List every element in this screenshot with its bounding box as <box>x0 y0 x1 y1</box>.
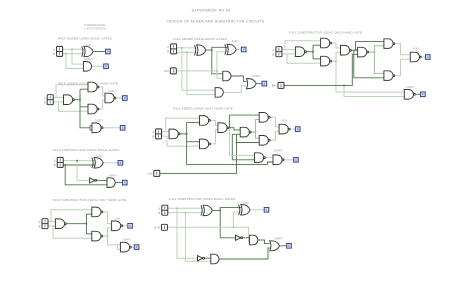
junction XOR1 out (FS basic) <box>219 210 221 212</box>
wire A to NAND1 (FA nand) <box>162 131 169 133</box>
NAND6 upper (FA nand) <box>259 113 270 123</box>
svg-text:A: A <box>54 159 56 163</box>
wire A branch to NAND2 (FS nand) <box>285 41 321 50</box>
wire NAND7 out to SUM gate (FA nand) <box>271 131 280 140</box>
wire AND out to CARRY probe (HA basic) <box>91 65 103 67</box>
SUM probe (FS basic) <box>264 208 269 213</box>
junction CIN (FA basic) <box>216 70 218 72</box>
wire CIN to AND1 (FA basic) <box>217 71 223 78</box>
wire NAND5 out loop up (FS nand) <box>369 46 384 52</box>
wire CARRY out to probe (FA nand) <box>284 159 293 161</box>
wire OR out to probe (FS basic) <box>280 245 287 247</box>
wire B branch to NAND3 (HS nand) <box>53 226 92 238</box>
AND gate (HS basic) <box>107 173 117 187</box>
svg-text:B: B <box>152 135 154 139</box>
svg-text:BIN: BIN <box>272 84 277 88</box>
XOR2 SUM gate (FS basic) <box>239 201 250 215</box>
svg-text:FULL SUBSTRACTOR USING BASIC G: FULL SUBSTRACTOR USING BASIC GATES <box>169 197 236 201</box>
SUM probe (HA basic) <box>106 49 111 54</box>
wire CIN distribution (FA basic) <box>176 52 227 71</box>
input pin CIN (FA nand) <box>147 170 159 176</box>
input pins A,B (HA basic) <box>53 46 62 56</box>
SUM probe (HA nand) <box>123 96 128 101</box>
junction NAND3 out (HS nand) <box>107 235 109 237</box>
wire BIN to carry in2 (FS nand) <box>344 85 404 96</box>
svg-text:FULL SUBSTRACTOR USING ONLY NA: FULL SUBSTRACTOR USING ONLY NAND GATE <box>289 31 362 35</box>
wire B branch to AND (HS basic) <box>65 165 107 185</box>
wire CARRY input split (HA nand) <box>90 126 92 130</box>
NAND7 lower (FS nand) <box>384 71 395 81</box>
svg-text:SUM: SUM <box>108 89 114 93</box>
svg-text:CARRY: CARRY <box>274 149 284 153</box>
junction NAND3 out (FS nand) <box>335 60 337 62</box>
NAND2 upper (HA nand) <box>88 82 99 92</box>
CARRY probe (FA nand) <box>294 158 299 163</box>
NAND7 lower (FA nand) <box>259 136 270 146</box>
wire X down to NAND7 (FS nand) <box>354 50 384 78</box>
wire A to XOR1 (FS basic) <box>168 207 204 209</box>
wire node to NAND2 stub (HS nand) <box>86 213 91 215</box>
wire A to NAND1 (HS nand) <box>48 221 55 223</box>
wire AND2 out to OR (FS basic) <box>219 248 270 259</box>
NOT2 gate (FS basic) <box>198 256 205 261</box>
svg-text:B: B <box>44 100 46 104</box>
wire CARRY in1 stub (HA nand) <box>90 125 92 127</box>
wire NAND2 stub (FS nand) <box>313 44 321 46</box>
junction NAND1 out (FA nand) <box>186 133 188 135</box>
wire XOR2 out to probe (FS basic) <box>250 209 264 211</box>
svg-text:A: A <box>44 96 46 100</box>
svg-text:CIRCUIT DESIGN: CIRCUIT DESIGN <box>84 27 106 31</box>
SUM probe (HS nand) <box>128 224 133 229</box>
wire NAND3 out to SUM (HS nand) <box>103 228 112 236</box>
svg-text:CIN: CIN <box>164 69 169 73</box>
wire B to XOR (HA basic) <box>63 53 85 55</box>
NAND1 first stage (HS nand) <box>55 219 66 229</box>
wire NAND6 out to SUM (FS nand) <box>395 44 410 55</box>
NAND5 second stage (FS nand) <box>358 47 369 57</box>
NAND2 upper (FA nand) <box>200 116 211 126</box>
junction BIN (FS basic) <box>233 227 235 229</box>
junction X net (FS nand) <box>355 49 357 51</box>
NAND4 SUM (HA nand) <box>105 89 116 103</box>
wire B to XOR1 (FS basic) <box>168 212 204 214</box>
CARRY probe (FS basic) <box>287 244 292 249</box>
wire B to XOR (HS basic) <box>63 164 95 166</box>
svg-text:FULL ADDER USING BASIC GATES: FULL ADDER USING BASIC GATES <box>173 37 226 41</box>
wire NAND4 out X node (FS nand) <box>352 49 356 51</box>
svg-text:SUM: SUM <box>232 39 238 43</box>
wire carry in1 long (FA nand) <box>230 128 255 156</box>
junction X net (FA nand) <box>229 127 231 129</box>
wire AND out to probe (HS basic) <box>115 182 123 184</box>
svg-text:CARRY: CARRY <box>406 85 416 89</box>
junction BIN net (FS nand) <box>343 85 345 87</box>
AND1 gate (FS basic) <box>250 235 258 245</box>
wire node NAND3 stub (FA nand) <box>187 141 200 143</box>
svg-text:A: A <box>167 45 169 49</box>
wire NAND9 out to NAND10 (FA nand) <box>266 157 273 159</box>
OR CARRY gate (FS basic) <box>270 236 284 251</box>
SUM probe (HS basic) <box>118 161 123 166</box>
AND2 gate (FA basic) <box>215 88 223 98</box>
wire XOR out to SUM probe (HA basic) <box>94 51 106 53</box>
wire CIN to NAND7 (FA nand) <box>237 142 260 144</box>
wire CIN long (FA nand) <box>160 134 240 173</box>
svg-text:A: A <box>53 48 55 52</box>
wire XOR1 out node (FS basic) <box>213 208 242 211</box>
svg-text:HALF ADDER USING BASIC GATES: HALF ADDER USING BASIC GATES <box>58 37 112 41</box>
input pins A,B (FS basic) <box>158 205 167 215</box>
OR CARRY gate (FA basic) <box>246 74 261 89</box>
svg-text:EXPERIMENT NO-04: EXPERIMENT NO-04 <box>192 9 231 13</box>
NAND4 xor out (FS nand) <box>341 45 352 55</box>
input pins A,B (FA nand) <box>152 129 161 139</box>
wire NAND2 out to SUM gate (HA nand) <box>99 87 105 96</box>
svg-text:COMBINATIONAL: COMBINATIONAL <box>84 23 106 27</box>
svg-text:B: B <box>272 52 274 56</box>
NAND3 lower (FA nand) <box>200 139 211 149</box>
wire NAND6 out to SUM gate (FA nand) <box>271 117 280 127</box>
wire NAND4 out X net (FA nand) <box>229 115 259 128</box>
wire X net to NAND5 (FA nand) <box>230 128 241 130</box>
wire XOR2 out to SUM probe (FA basic) <box>237 49 242 51</box>
wire A to XOR1 (FA basic) <box>177 47 198 49</box>
CARRY probe (FS nand) <box>421 92 426 97</box>
wire XOR1 out to AND1 (FA basic) <box>212 50 223 74</box>
wire node vertical to CARRY (HA nand) <box>80 89 90 128</box>
wire A branch to AND2 (FA basic) <box>182 48 215 90</box>
XOR gate (HA basic) <box>82 43 93 57</box>
junction B branch (HA basic) <box>65 53 67 55</box>
wire NAND3 out to NAND4 (FA nand) <box>203 130 218 144</box>
svg-text:A: A <box>272 48 274 52</box>
svg-text:CARRY: CARRY <box>108 173 118 177</box>
wire B to NAND1 (FS nand) <box>282 53 296 55</box>
AND gate (HA basic) <box>83 57 93 71</box>
XOR gate (HS basic) <box>92 154 103 168</box>
junction NAND1 out (HA nand) <box>79 99 81 101</box>
CARRY probe (HS nand) <box>134 245 139 250</box>
junction A branch (FS basic) <box>176 207 178 209</box>
input pin BIN (FS basic) <box>154 224 167 230</box>
wire NAND3 to carry long (FS nand) <box>336 61 404 92</box>
NAND5 CARRY (HA nand) <box>92 118 104 132</box>
wire OR out to CARRY probe (FA basic) <box>257 83 262 85</box>
svg-text:A: A <box>39 220 41 224</box>
wire A branch to NOT2 (FS basic) <box>177 208 198 258</box>
svg-text:CARRY: CARRY <box>252 74 262 78</box>
wire NAND5 out loop down (FS nand) <box>374 52 384 73</box>
input pins A,B (HA nand) <box>44 95 53 105</box>
wire B branch to AND2 (FA basic) <box>187 52 215 94</box>
svg-text:HALF SUBSTRACTOR USING BASIC G: HALF SUBSTRACTOR USING BASIC GATES <box>52 148 119 152</box>
svg-text:B: B <box>39 224 41 228</box>
wire node NAND2 stub (FA nand) <box>187 122 200 124</box>
svg-text:FULL ADDER USING ONLY NAND GAT: FULL ADDER USING ONLY NAND GATE <box>173 107 233 111</box>
NOT gate (HS basic) <box>90 178 97 183</box>
svg-text:B: B <box>53 52 55 56</box>
svg-text:SUM: SUM <box>413 47 419 51</box>
wire BIN long (FS nand) <box>284 54 358 85</box>
wire NAND5 out loop down (FA nand) <box>256 132 260 138</box>
wire SUM out to probe (HS nand) <box>123 225 128 227</box>
wire NAND1 out node (FS nand) <box>307 51 313 53</box>
wire AND1 out to OR (FA basic) <box>231 76 247 81</box>
wire A branch to NAND2 (HS nand) <box>51 210 92 222</box>
svg-text:SUM: SUM <box>114 217 120 221</box>
wire A branch to NAND2 (FA nand) <box>166 118 200 132</box>
wire node to NAND2 in2 (FA nand) <box>186 123 188 142</box>
wire XOR out to probe (HS basic) <box>104 162 118 164</box>
wire CARRY out to probe (HA nand) <box>103 127 120 129</box>
wire NAND7 out to SUM (FS nand) <box>395 59 410 75</box>
wire X up to NAND6 (FS nand) <box>355 41 357 50</box>
wire NAND3 out to SUM gate (HA nand) <box>99 100 105 109</box>
junction A branch (FA basic) <box>181 47 183 49</box>
wire NAND3 out node (FS nand) <box>332 52 341 61</box>
wire B branch to NAND3 (HA nand) <box>59 102 89 111</box>
junction A to NOT (HS basic) <box>76 160 78 162</box>
wire B branch to AND2 (FS basic) <box>185 213 210 262</box>
input pins A,B (HS nand) <box>39 219 48 229</box>
junction B branch (FS basic) <box>185 212 187 214</box>
SUM probe (FA nand) <box>295 127 300 132</box>
CARRY probe (HS basic) <box>123 180 128 185</box>
svg-text:A: A <box>158 206 160 210</box>
wire NOT out to AND (HS basic) <box>96 179 107 181</box>
wire NAND1 out node (HS nand) <box>67 223 87 225</box>
junction B branch (FA basic) <box>186 52 188 54</box>
input pins A,B (FA basic) <box>167 44 176 54</box>
wire B branch to NAND3 (FA nand) <box>167 136 200 146</box>
svg-text:B: B <box>158 211 160 215</box>
wire NAND1 out node (HA nand) <box>75 99 80 101</box>
junction NAND5 out (FA nand) <box>255 131 257 133</box>
svg-text:CARRY: CARRY <box>94 118 104 122</box>
wire B to NAND1 (FA nand) <box>162 135 169 137</box>
SUM probe (FA basic) <box>241 47 246 52</box>
wire A to XOR (HS basic) <box>63 160 95 162</box>
wire A branch to NOT (HS basic) <box>77 161 90 181</box>
NOT1 gate (FS basic) <box>236 235 243 240</box>
CARRY probe (HA basic) <box>104 64 109 69</box>
NAND9 CARRY (FS nand) <box>404 85 415 99</box>
wire CARRY in1 stub (HS nand) <box>118 244 121 246</box>
wire NAND1 to carry chain (FA nand) <box>187 142 273 165</box>
wire NAND5 out loop up (FA nand) <box>252 120 260 133</box>
NAND9 carry stage (FA nand) <box>255 153 266 163</box>
wire A to XOR (HA basic) <box>63 48 85 50</box>
junction A branch (HA basic) <box>71 49 73 51</box>
XOR1 gate (FA basic) <box>195 45 206 55</box>
NAND10 CARRY (FA nand) <box>273 149 284 165</box>
wire node to NAND3 stub (HS nand) <box>86 233 91 235</box>
wire CIN branch to NAND9 in2 (FA nand) <box>232 134 254 160</box>
NAND5 CARRY (HS nand) <box>120 238 131 252</box>
wire A to NAND1 (FS nand) <box>282 49 296 51</box>
wire A to NAND1 (HA nand) <box>53 97 63 99</box>
junction B to AND (HS basic) <box>64 164 66 166</box>
AND2 gate (FS basic) <box>211 254 219 264</box>
NAND1 first stage (FS nand) <box>295 47 306 57</box>
svg-text:CIN: CIN <box>147 172 152 176</box>
NAND1 first stage (HA nand) <box>64 95 75 105</box>
svg-text:CARRY: CARRY <box>274 236 284 240</box>
wire AND2 out to OR (FA basic) <box>223 86 246 93</box>
junction CIN net (FA nand) <box>236 142 238 144</box>
NAND4 SUM (HS nand) <box>112 217 123 231</box>
svg-text:HALF SUBSTRACTOR USING ONLY NA: HALF SUBSTRACTOR USING ONLY NAND GATE <box>53 198 127 202</box>
wire A branch to AND (HA basic) <box>72 49 83 64</box>
NAND2 upper (FS nand) <box>321 38 332 48</box>
CARRY probe (HA nand) <box>120 126 125 131</box>
wire SUM out to probe (FA nand) <box>290 128 295 130</box>
input pin CIN (FA basic) <box>164 68 176 74</box>
XOR1 gate (FS basic) <box>201 205 212 215</box>
wire CARRY out to probe (FS nand) <box>416 93 421 95</box>
wire XOR1 out node (FA basic) <box>206 47 227 50</box>
svg-text:A: A <box>152 130 154 134</box>
wire NOT2 out to AND2 (FS basic) <box>204 257 210 259</box>
wire NAND3 out to CARRY (HS nand) <box>108 236 121 249</box>
NAND6 upper (FS nand) <box>384 39 395 49</box>
wire node to NAND2 in2 (HS nand) <box>85 214 87 234</box>
junction NAND1 out (HS nand) <box>86 223 88 225</box>
NAND4 xor out (FA nand) <box>218 123 229 133</box>
wire node to NAND2 in2 (HA nand) <box>80 88 88 90</box>
XOR2 SUM gate (FA basic) <box>225 39 238 55</box>
NAND8 SUM (FS nand) <box>410 47 421 62</box>
junction NAND5 out (FS nand) <box>374 51 376 53</box>
CARRY probe (FA basic) <box>262 81 267 86</box>
AND1 gate (FA basic) <box>223 71 231 81</box>
svg-text:CARRY: CARRY <box>122 238 132 242</box>
wire B to NAND1 (HA nand) <box>53 101 63 103</box>
wire CARRY out to probe (HS nand) <box>132 246 135 248</box>
wire node to NAND3 in1 (HA nand) <box>80 106 88 108</box>
wire node to NAND2 in2 (FS nand) <box>312 45 314 59</box>
svg-text:B: B <box>54 163 56 167</box>
NAND2 upper (HS nand) <box>92 207 103 217</box>
input pins A,B (HS basic) <box>54 157 63 167</box>
wire BIN to AND1 (FS basic) <box>233 227 249 242</box>
wire XOR1 to NOT1 (FS basic) <box>220 210 235 237</box>
wire NAND2 out to NAND4 (FA nand) <box>203 120 218 125</box>
wire NAND1 out node (FA nand) <box>180 133 186 135</box>
NAND1 first stage (FA nand) <box>169 129 180 139</box>
wire B branch to NAND3 (FS nand) <box>287 54 321 63</box>
input pins A,B (FS nand) <box>272 47 281 57</box>
wire SUM out to probe (FS nand) <box>422 56 426 58</box>
NAND8 SUM (FA nand) <box>279 119 290 134</box>
NAND3 lower (FS nand) <box>321 56 332 66</box>
wire B to NAND1 (HS nand) <box>48 225 55 227</box>
wire X to NAND5 (FS nand) <box>356 49 358 51</box>
wire B branch to AND (HA basic) <box>66 54 83 69</box>
wire NAND3 stub (FS nand) <box>313 58 321 60</box>
wire A branch to NAND2 (HA nand) <box>56 85 88 98</box>
input pin BIN (FS nand) <box>272 82 284 88</box>
svg-text:SUM: SUM <box>282 119 288 123</box>
svg-text:CARRY: CARRY <box>84 57 94 61</box>
wire NOT1 out to AND1 (FS basic) <box>242 237 250 239</box>
junction XOR1 out (FA basic) <box>211 49 213 51</box>
SUM probe (FS nand) <box>426 55 431 60</box>
svg-text:B: B <box>167 50 169 54</box>
svg-text:B IN: B IN <box>154 226 159 230</box>
svg-text:DESIGN OF ADDER AND SUBSTRACTO: DESIGN OF ADDER AND SUBSTRACTOR CIRCUITS <box>167 20 265 24</box>
wire B to XOR1 (FA basic) <box>177 51 198 53</box>
NAND3 lower (HA nand) <box>88 104 99 114</box>
junction NAND1 out (FS nand) <box>312 51 314 53</box>
wire AND1 out to OR (FS basic) <box>258 240 270 244</box>
NAND5 second stage (FA nand) <box>240 127 251 137</box>
wire NAND2 out to NAND4 (FS nand) <box>332 43 341 48</box>
wire BIN distribution (FS basic) <box>168 212 242 227</box>
wire NAND2 out to SUM (HS nand) <box>103 212 112 224</box>
wire X NAND6 stub (FS nand) <box>356 40 384 42</box>
NAND3 lower (HS nand) <box>92 231 103 241</box>
wire SUM out to probe (HA nand) <box>116 97 122 99</box>
